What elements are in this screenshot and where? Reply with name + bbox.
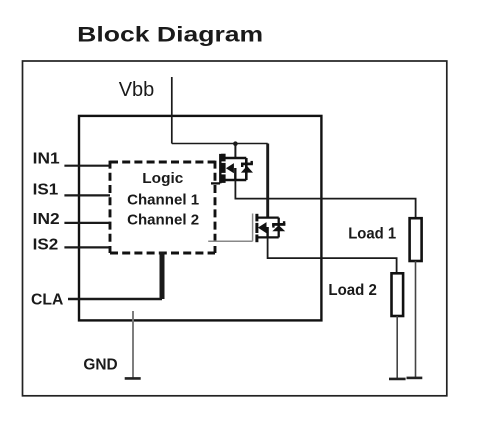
svg-text:Channel 1: Channel 1 bbox=[127, 193, 199, 209]
svg-text:Load 1: Load 1 bbox=[348, 226, 396, 243]
resistor Load 2 bbox=[392, 273, 404, 316]
wire IS2 to logic bbox=[64, 246, 110, 248]
svg-text:GND: GND bbox=[83, 357, 117, 374]
svg-text:Logic: Logic bbox=[142, 171, 183, 187]
IC package box bbox=[79, 116, 321, 321]
svg-text:CLA: CLA bbox=[31, 291, 64, 308]
wire Q2 source to Load 2 bbox=[268, 237, 397, 273]
ground for GND pin bbox=[125, 377, 141, 380]
svg-text:Load 2: Load 2 bbox=[328, 282, 377, 299]
wire IN2 to logic bbox=[64, 222, 110, 224]
svg-text:IN1: IN1 bbox=[33, 151, 60, 168]
wire Load 1 to ground bbox=[415, 261, 417, 378]
wire Q2 drain drop from Vbb rail bbox=[266, 144, 269, 218]
resistor Load 1 bbox=[410, 218, 422, 261]
svg-text:Block Diagram: Block Diagram bbox=[77, 23, 263, 46]
wire Load 2 to ground bbox=[396, 316, 398, 379]
wire Q1 gate from logic bbox=[211, 182, 220, 184]
svg-text:IS2: IS2 bbox=[33, 237, 59, 254]
wire Vbb rail to transistors bbox=[172, 143, 268, 145]
wire GND pin (grey) bbox=[132, 311, 134, 378]
ground for Load 1 bbox=[407, 377, 423, 380]
wire Vbb supply drop bbox=[171, 77, 173, 144]
logic block (dashed) Logic Channel 1 Channel 2 bbox=[110, 161, 215, 253]
transistor Q2 (channel 2 power MOSFET with clamp diode) bbox=[253, 214, 286, 243]
wire IS1 to logic bbox=[64, 194, 110, 196]
wire Q1 source to Load 1 bbox=[235, 180, 415, 218]
wire Q2 gate from logic (grey) bbox=[208, 240, 252, 242]
svg-text:IN2: IN2 bbox=[33, 211, 60, 228]
wire IN1 to logic bbox=[64, 165, 110, 167]
ground for Load 2 bbox=[389, 378, 406, 381]
svg-text:Channel 2: Channel 2 bbox=[127, 212, 199, 228]
wire CLA riser to logic block bbox=[160, 252, 165, 300]
svg-text:IS1: IS1 bbox=[33, 182, 59, 199]
transistor Q1 (channel 1 power MOSFET with clamp diode) bbox=[220, 154, 253, 184]
junction node at Q1 drain bbox=[233, 141, 238, 146]
wire Q1 drain bbox=[234, 144, 236, 159]
wire CLA horizontal bbox=[68, 298, 162, 300]
border frame of figure bbox=[23, 61, 447, 396]
svg-text:Vbb: Vbb bbox=[119, 79, 155, 101]
